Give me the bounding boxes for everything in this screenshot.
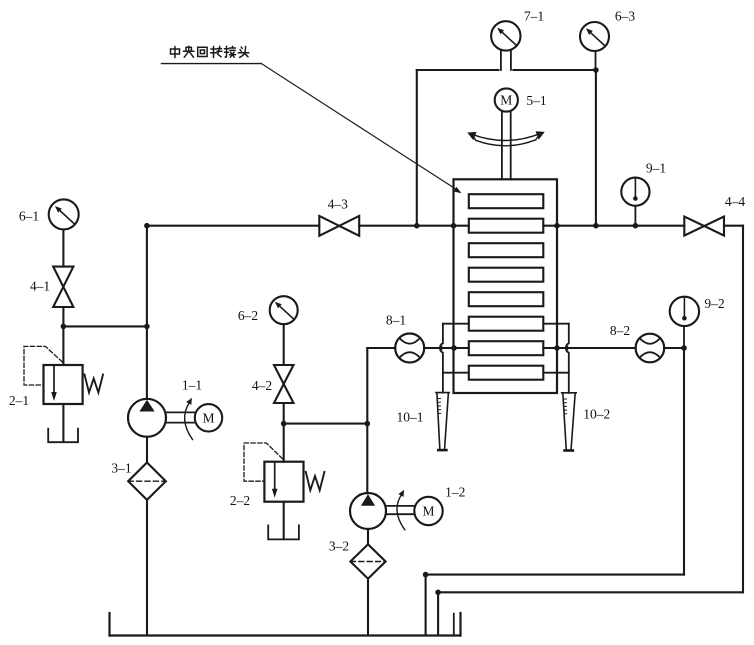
motor 1-1 <box>195 404 222 431</box>
relief valve 2-2 arrow <box>274 463 276 489</box>
flow meter 8-2 <box>636 334 665 363</box>
flow arrowhead left crossing <box>437 345 442 351</box>
gauge 9-1 <box>621 178 649 206</box>
svg-text:M: M <box>422 504 434 519</box>
svg-text:9–2: 9–2 <box>704 296 724 311</box>
pump 1-1 <box>128 399 166 437</box>
filter 3-2 <box>350 544 385 578</box>
rotation arrow 5-1 <box>467 131 544 145</box>
wire joint to meter 8-2 <box>543 347 635 349</box>
svg-text:1–1: 1–1 <box>182 378 202 393</box>
gauge 9-2 stem <box>683 326 685 348</box>
wire filter 3-1 to tank <box>146 500 148 636</box>
wire filter 3-2 to tank <box>367 579 369 636</box>
wire main horizontal right segment <box>543 225 684 227</box>
filter 3-1 <box>128 463 166 500</box>
funnel 10-1 <box>436 393 449 451</box>
wire 6-2 to valve 4-2 <box>283 324 285 365</box>
relief valve 2-1 box <box>44 365 83 404</box>
svg-text:8–2: 8–2 <box>610 323 630 338</box>
relief valve 2-2 box <box>264 462 303 502</box>
flow arrowhead right crossing <box>563 345 568 351</box>
svg-text:8–1: 8–1 <box>386 313 406 328</box>
drain tank symbol 2-2 <box>268 525 299 539</box>
clamp right top line <box>543 323 569 325</box>
glyph zhuan <box>211 46 222 57</box>
tank left wall <box>108 613 110 636</box>
gauge 9-1 stem <box>634 206 636 226</box>
gauge 7-1 <box>491 21 520 50</box>
valve 4-2 <box>274 365 294 403</box>
wire pump 1-2 to filter 3-2 <box>367 529 369 544</box>
svg-text:2–1: 2–1 <box>9 393 29 408</box>
wire 2-1 to drain tank <box>62 404 64 442</box>
leader underline for label <box>162 63 262 65</box>
svg-text:3–2: 3–2 <box>329 539 349 554</box>
clamp left top line <box>443 323 469 325</box>
svg-text:3–1: 3–1 <box>111 461 131 476</box>
wire after valve 4-4 <box>724 225 743 227</box>
relief valve 2-2 spring <box>306 472 325 490</box>
clamp left vertical with hop <box>440 324 443 393</box>
drain tank symbol 2-1 <box>48 429 78 443</box>
wire meter 8-1 to joint <box>424 347 469 349</box>
wire 4-1 to relief 2-1 <box>62 307 64 365</box>
svg-text:2–2: 2–2 <box>230 493 250 508</box>
svg-text:4–4: 4–4 <box>725 194 746 209</box>
wire meter 8-2 to junction <box>664 347 684 349</box>
clamp right bottom line <box>543 372 569 374</box>
gauge 7-1 stem <box>501 51 511 70</box>
return stub into tank <box>453 614 455 636</box>
relief valve 2-2 pilot line <box>244 443 283 481</box>
wire 9-2 vertical down <box>683 348 685 575</box>
motor 1-2 <box>414 497 442 525</box>
gauge 6-3 <box>580 22 609 51</box>
wire main horizontal left segment <box>147 225 319 227</box>
glyph tou <box>238 46 249 57</box>
svg-text:M: M <box>500 93 512 108</box>
relief valve 2-1 pilot line <box>24 346 62 385</box>
relief valve 2-1 arrow <box>53 367 55 393</box>
wire bottom horizontal inner <box>426 575 684 636</box>
svg-text:4–1: 4–1 <box>30 279 50 294</box>
glyph hui <box>198 47 207 56</box>
gauge 6-1 <box>49 199 79 229</box>
svg-text:5–1: 5–1 <box>526 93 546 108</box>
funnel 10-2 <box>562 393 577 451</box>
wire 8-1 corner down to pump 1-2 <box>366 348 368 493</box>
wire 6-1 to valve 4-1 <box>62 230 64 267</box>
tank bottom <box>110 634 461 636</box>
clamp left bottom line <box>443 372 469 374</box>
svg-text:M: M <box>202 410 214 425</box>
glyph yang <box>184 46 194 57</box>
clamp right vertical with hop <box>566 324 569 393</box>
gauge 7-1 stem gap <box>501 69 511 72</box>
wire pump 1-1 to filter 3-1 <box>146 437 148 463</box>
valve 4-3 <box>319 216 359 236</box>
wire lower left to meter 8-1 <box>367 347 395 349</box>
motor 5-1 <box>495 88 518 111</box>
svg-text:9–1: 9–1 <box>646 161 666 176</box>
wire left loop vertical <box>416 70 418 226</box>
valve 4-1 <box>53 267 73 307</box>
joint channel rectangles <box>469 194 544 208</box>
branch wire to pump 1-2 column <box>284 423 368 425</box>
wire main left vertical <box>146 226 148 399</box>
wire 2-2 to drain tank <box>283 502 285 539</box>
gauge 6-3 stem <box>595 51 597 70</box>
svg-text:10–2: 10–2 <box>583 407 610 422</box>
svg-text:10–1: 10–1 <box>397 410 424 425</box>
shaft of motor 5-1 <box>502 112 511 180</box>
leader line to rotary joint <box>261 64 456 190</box>
shaft pump 1-2 <box>386 506 414 514</box>
svg-text:4–2: 4–2 <box>252 378 272 393</box>
relief valve 2-1 spring <box>85 375 104 393</box>
gauge 9-2 <box>670 297 699 326</box>
tank right wall <box>459 613 461 636</box>
svg-text:6–3: 6–3 <box>615 9 636 24</box>
central rotary joint outer box <box>454 179 558 393</box>
rotation arrow 1-2 <box>397 495 405 530</box>
leader arrowhead <box>454 187 462 193</box>
rotation arrow 1-1 <box>185 403 193 440</box>
glyph zhong <box>171 47 180 58</box>
svg-text:1–2: 1–2 <box>445 485 465 500</box>
svg-text:6–1: 6–1 <box>19 209 39 224</box>
svg-text:4–3: 4–3 <box>328 197 349 212</box>
valve 4-4 <box>684 217 724 236</box>
wire main horizontal mid segment <box>359 225 469 227</box>
shaft pump 1-1 <box>166 412 195 422</box>
wire bottom horizontal to tank (outer) <box>438 592 743 635</box>
wire right loop vertical <box>595 70 597 226</box>
branch wire to main vertical <box>63 325 146 327</box>
glyph jie <box>225 46 236 57</box>
svg-text:6–2: 6–2 <box>238 308 258 323</box>
pump 1-2 <box>350 493 386 529</box>
wire right edge vertical <box>742 226 744 593</box>
flow meter 8-1 <box>395 334 424 363</box>
wire top horizontal <box>417 69 596 71</box>
svg-text:7–1: 7–1 <box>524 9 544 24</box>
gauge 6-2 <box>270 296 298 324</box>
wire 4-2 to relief 2-2 <box>283 403 285 462</box>
chinese label: central rotary joint <box>171 46 249 57</box>
